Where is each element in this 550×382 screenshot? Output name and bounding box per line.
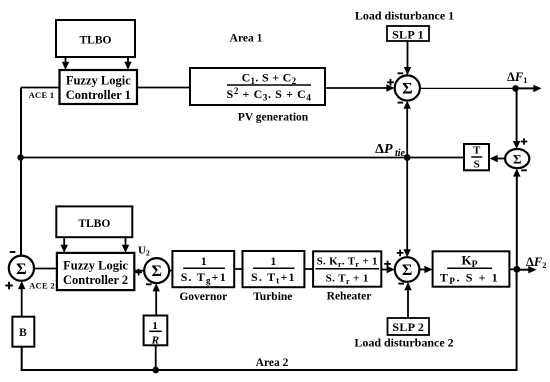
- wire ACE1 into FLC1: [21, 87, 60, 89]
- wire bottom rail up to 1/R: [155, 345, 157, 370]
- sign plus at S2 top: [521, 138, 528, 145]
- block Fuzzy Logic Controller 2: [57, 253, 134, 290]
- svg-text:Load disturbance 1: Load disturbance 1: [355, 9, 454, 23]
- summing junction S2: [505, 149, 529, 168]
- svg-text:S. Kr. Tr + 1: S. Kr. Tr + 1: [317, 256, 378, 270]
- wire dF1 output arrow: [516, 85, 542, 92]
- node tie-line junction dot: [404, 154, 411, 161]
- svg-text:S: S: [474, 159, 480, 171]
- node dF2 junction dot: [513, 266, 520, 273]
- svg-text:Turbine: Turbine: [253, 291, 292, 303]
- block Governor transfer function: [172, 251, 234, 287]
- wire dF2 node up into S2 bottom: [513, 168, 520, 269]
- wire tie-line junction up into S1 bottom: [404, 101, 411, 158]
- wire FLC2 to summer S5: [134, 270, 144, 272]
- wire PV to summer S1 with arrow: [325, 84, 395, 91]
- block B bias: [12, 317, 34, 347]
- svg-text:TLBO: TLBO: [80, 35, 112, 47]
- svg-text:1: 1: [271, 256, 277, 268]
- wire left rail vertical: [20, 88, 22, 257]
- node dF1 junction dot: [512, 85, 519, 92]
- block PV generation transfer function: [190, 68, 325, 105]
- sign minus at S5 bottom: [146, 283, 152, 285]
- wire Kp to dF2 node: [509, 268, 516, 270]
- block SLP 2: [388, 318, 430, 335]
- wire Reheater to summer S4 with arrow: [381, 266, 395, 273]
- svg-text:Fuzzy Logic: Fuzzy Logic: [63, 259, 128, 273]
- wire bottom feedback rail from B to dF2 node: [22, 269, 517, 370]
- svg-text:R: R: [151, 335, 159, 347]
- wire S5 to Governor: [169, 270, 172, 272]
- svg-text:S. Tg+1: S. Tg+1: [181, 270, 227, 286]
- svg-text:Controller 1: Controller 1: [66, 88, 131, 102]
- svg-text:1: 1: [201, 256, 207, 268]
- block SLP 1: [387, 26, 429, 42]
- sign plus at S3 bottom: [5, 282, 12, 289]
- wire S1 output to dF1 node: [420, 87, 516, 89]
- svg-text:Load disturbance 2: Load disturbance 2: [354, 336, 453, 350]
- sign minus at S4 bottom: [398, 283, 404, 285]
- summing junction S4: [395, 257, 420, 282]
- svg-text:Σ: Σ: [151, 263, 161, 280]
- sign plus at S4 top: [397, 250, 404, 257]
- svg-text:Controller 2: Controller 2: [63, 273, 128, 287]
- svg-text:Σ: Σ: [402, 81, 412, 98]
- wire B up into S3 bottom: [18, 281, 25, 317]
- wire TLBO2 to FLC2 left arrow: [61, 237, 68, 253]
- svg-text:TP. S + 1: TP. S + 1: [440, 271, 499, 287]
- svg-text:B: B: [19, 327, 27, 339]
- svg-text:Reheater: Reheater: [327, 291, 372, 303]
- svg-text:Area 2: Area 2: [256, 357, 289, 369]
- wire SLP2 up into S4 bottom: [404, 282, 411, 318]
- svg-text:Σ: Σ: [513, 152, 522, 167]
- svg-text:PV generation: PV generation: [238, 112, 309, 124]
- block T/S tie line: [464, 144, 489, 171]
- wire TLBO1 to FLC1 right arrow: [124, 57, 131, 70]
- wire S3 output to FLC2: [34, 268, 57, 270]
- wire dF1 node down to summer S2: [513, 88, 520, 149]
- wire TLBO1 to FLC1 left arrow: [62, 57, 69, 70]
- svg-text:TLBO: TLBO: [78, 218, 110, 230]
- node left rail junction dot: [17, 154, 23, 160]
- block Fuzzy Logic Controller 1: [60, 70, 138, 104]
- svg-text:Fuzzy Logic: Fuzzy Logic: [66, 74, 131, 88]
- summing junction S1: [395, 75, 420, 100]
- wire SLP1 down to summer S1: [404, 41, 411, 75]
- block Reheater transfer function: [313, 251, 381, 286]
- svg-text:Area 1: Area 1: [230, 33, 263, 45]
- sign minus at S1 top: [398, 72, 404, 74]
- svg-text:ACE 1: ACE 1: [29, 90, 55, 100]
- svg-text:S. Tt+1: S. Tt+1: [251, 270, 296, 286]
- wire 1/R up into S5 bottom: [153, 283, 160, 315]
- sign plus at S4 left: [384, 261, 391, 268]
- svg-text:1: 1: [152, 320, 158, 332]
- svg-text:SLP 2: SLP 2: [392, 320, 424, 334]
- wire FLC1 to PV block: [137, 87, 190, 89]
- summing junction S3: [9, 256, 34, 281]
- wire tie line from T/S to left rail: [21, 157, 464, 159]
- svg-text:Governor: Governor: [179, 291, 227, 303]
- svg-text:C1. S + C2: C1. S + C2: [242, 71, 297, 87]
- wire dF2 output arrow: [517, 266, 537, 273]
- sign plus at S1 left: [387, 79, 394, 86]
- svg-text:ACE 2: ACE 2: [29, 281, 55, 291]
- svg-text:T: T: [473, 145, 481, 157]
- wire S2 output to T/S block: [490, 155, 506, 162]
- block TLBO (area 2): [56, 206, 132, 237]
- block 1/R droop: [144, 316, 168, 347]
- svg-text:S2 + C3. S + C4: S2 + C3. S + C4: [227, 86, 312, 103]
- sign minus at S2 bottom: [521, 169, 527, 171]
- wire S4 to Kp block with arrow: [419, 266, 432, 273]
- svg-text:Σ: Σ: [402, 262, 412, 279]
- block Turbine transfer function: [243, 251, 305, 287]
- block Kp power system transfer function: [433, 251, 510, 286]
- sign plus at S5 left: [135, 269, 142, 276]
- wire TLBO2 to FLC2 right arrow: [122, 237, 129, 253]
- sign minus at S1 bottom: [398, 102, 404, 104]
- svg-text:SLP 1: SLP 1: [392, 28, 424, 42]
- node 1/R junction dot on bottom rail: [152, 367, 159, 374]
- block TLBO (area 1): [56, 20, 135, 57]
- wire Turbine to Reheater: [304, 268, 313, 270]
- summing junction S5: [144, 258, 169, 283]
- svg-text:Σ: Σ: [16, 261, 26, 278]
- sign minus at S3 top: [10, 251, 16, 253]
- wire Governor to Turbine: [234, 268, 242, 270]
- wire tie-line junction down to summer S4: [404, 158, 411, 258]
